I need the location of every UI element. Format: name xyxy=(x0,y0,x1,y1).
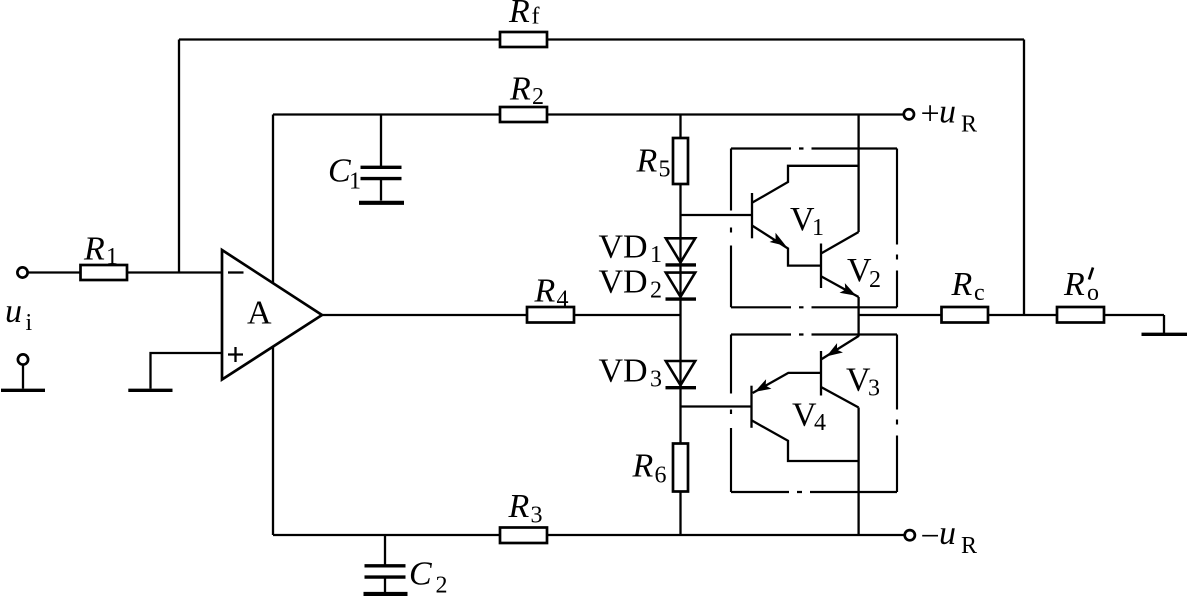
dash-dot box V3 V4 xyxy=(731,335,897,493)
svg-text:R: R xyxy=(508,0,530,30)
terminal -uR xyxy=(905,530,915,540)
svg-text:i: i xyxy=(26,310,33,336)
svg-text:4: 4 xyxy=(814,410,826,436)
wire: emitter vertical to output node xyxy=(857,297,859,337)
wire: feedback right vertical down to output node xyxy=(1023,40,1025,316)
svg-text:1: 1 xyxy=(349,169,361,195)
svg-text:3: 3 xyxy=(868,376,880,402)
svg-text:o: o xyxy=(1087,280,1099,306)
svg-text:1: 1 xyxy=(106,244,118,270)
svg-text:2: 2 xyxy=(532,84,544,110)
svg-text:6: 6 xyxy=(655,463,667,489)
svg-text:R: R xyxy=(961,533,977,559)
wire: input to R1 xyxy=(28,271,81,273)
ground for C2 xyxy=(364,592,408,596)
transistor V2 xyxy=(821,232,859,301)
svg-text:2: 2 xyxy=(436,573,448,596)
resistor R2 xyxy=(500,107,547,122)
transistor V1 xyxy=(752,166,859,266)
wire: op-amp output to diode chain (R4 line) xyxy=(322,314,681,316)
resistor Ro' xyxy=(1057,307,1104,323)
op-amp U A xyxy=(222,250,322,380)
resistor Rc xyxy=(942,307,989,323)
svg-text:VD: VD xyxy=(599,229,648,266)
wire: return terminal stub xyxy=(22,365,24,389)
svg-text:R: R xyxy=(961,112,977,138)
svg-text:2: 2 xyxy=(869,267,881,293)
svg-text:3: 3 xyxy=(531,503,543,529)
wire: non-inverting input to ground xyxy=(151,353,223,389)
resistor R6 xyxy=(673,444,688,492)
resistor R4 xyxy=(527,307,574,323)
ground at input xyxy=(1,389,45,392)
svg-text:R: R xyxy=(83,231,105,268)
svg-text:4: 4 xyxy=(557,287,569,313)
resistor R3 xyxy=(500,528,547,544)
svg-text:5: 5 xyxy=(659,157,671,183)
svg-text:R: R xyxy=(636,143,658,180)
resistor R5 xyxy=(673,138,688,184)
resistor Rf xyxy=(500,32,547,47)
svg-text:f: f xyxy=(532,4,540,30)
wire: Rf feedback rail top xyxy=(179,38,1024,40)
ground at op-amp + input xyxy=(128,389,172,392)
wire: chain vertical segments xyxy=(679,115,681,536)
svg-text:u: u xyxy=(939,515,956,552)
svg-text:2: 2 xyxy=(650,278,662,304)
svg-text:1: 1 xyxy=(812,215,824,241)
diode VD3 xyxy=(666,361,697,388)
svg-text:R: R xyxy=(1063,266,1085,303)
capacitor C2 xyxy=(365,535,406,592)
svg-text:R: R xyxy=(534,273,556,310)
diode VD1 xyxy=(666,238,697,265)
terminal input ui xyxy=(17,267,27,277)
svg-text:+: + xyxy=(921,96,940,133)
svg-text:R: R xyxy=(951,266,973,303)
wire: output node line to Rc and Ro xyxy=(859,315,1164,333)
svg-text:−: − xyxy=(921,518,940,555)
svg-text:C: C xyxy=(409,556,432,593)
op-amp plus pin mark xyxy=(228,347,243,362)
wire: R1 to op-amp inverting input xyxy=(127,271,222,273)
wire: feedback left vertical to inverting node xyxy=(178,40,180,273)
wire: V3 collector vertical to -uR rail xyxy=(857,408,859,536)
svg-text:C: C xyxy=(328,153,351,190)
svg-text:R: R xyxy=(632,448,654,485)
wire: V4 base lead xyxy=(681,405,752,407)
svg-text:VD: VD xyxy=(599,264,648,301)
wire: -uR rail xyxy=(273,534,904,536)
dash-dot box V1 V2 xyxy=(731,149,897,308)
transistor V4 xyxy=(752,373,859,461)
svg-text:3: 3 xyxy=(650,367,662,393)
svg-text:A: A xyxy=(247,295,272,332)
resistor R1 xyxy=(81,265,128,280)
wire: left vertical R2-to-R3 rail xyxy=(272,115,274,536)
svg-text:c: c xyxy=(974,280,985,306)
svg-text:u: u xyxy=(939,94,956,131)
transistor V3 xyxy=(821,336,859,408)
wire: +uR rail xyxy=(273,113,904,115)
terminal +uR xyxy=(904,109,914,119)
terminal input return xyxy=(18,354,28,364)
op-amp minus pin mark xyxy=(228,271,244,273)
svg-text:u: u xyxy=(5,293,22,330)
svg-text:VD: VD xyxy=(599,353,648,390)
svg-text:1: 1 xyxy=(650,242,662,268)
diode VD2 xyxy=(666,273,697,300)
wire: V1 base lead xyxy=(681,214,753,216)
ground for C1 xyxy=(359,201,404,205)
ground at output right xyxy=(1142,333,1187,336)
wire: collector vertical from +uR rail xyxy=(857,115,859,233)
capacitor C1 xyxy=(361,115,402,201)
svg-text:R: R xyxy=(508,488,530,525)
svg-text:R: R xyxy=(509,71,531,108)
